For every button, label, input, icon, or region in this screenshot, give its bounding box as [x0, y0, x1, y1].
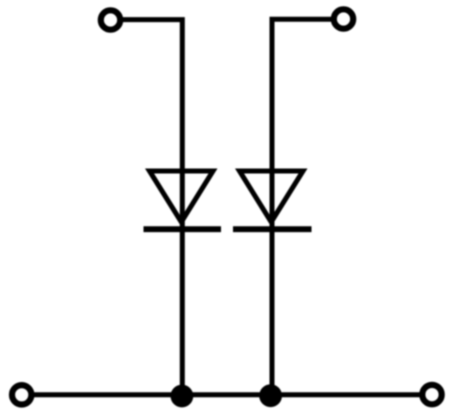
wire (top-right terminal to right branch corner, then down): [272, 19, 331, 395]
diode D2 (right, cathode down): [233, 171, 312, 229]
junction (left branch to bus): [171, 385, 194, 408]
terminal X2 (top right open circle): [334, 9, 353, 28]
terminal X3 (bottom left open circle): [12, 385, 31, 404]
wire (top-left terminal to left branch corner, then down): [123, 20, 183, 396]
wire (bottom horizontal bus): [34, 392, 421, 397]
terminal X1 (top left open circle): [101, 10, 120, 29]
diode D1 (left, cathode down): [144, 171, 222, 229]
terminal X4 (bottom right open circle): [422, 385, 441, 404]
junction (right branch to bus): [259, 384, 282, 407]
